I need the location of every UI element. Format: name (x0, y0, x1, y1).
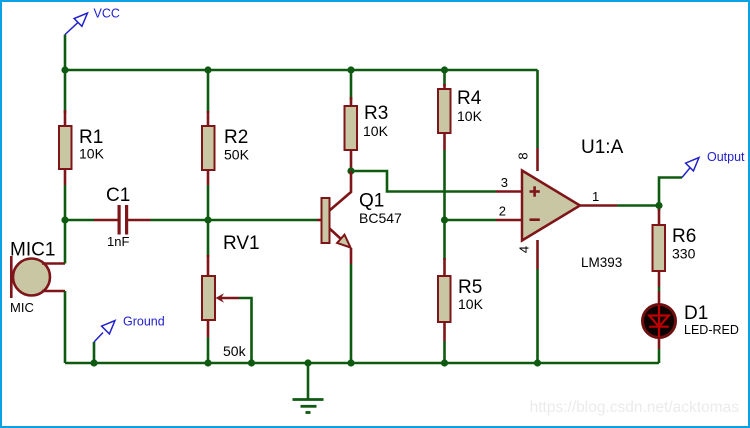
junction top rail at R2 (204, 66, 211, 73)
svg-text:https://blog.csdn.net/acktomas: https://blog.csdn.net/acktomas (530, 399, 740, 416)
capacitor C1 (94, 205, 151, 235)
svg-text:10K: 10K (363, 123, 389, 139)
svg-text:3: 3 (501, 175, 508, 190)
wire pin 1 to output node (617, 204, 659, 207)
pin 3 stub (496, 190, 522, 193)
wire R1 bottom (64, 185, 67, 220)
svg-text:MIC1: MIC1 (10, 240, 55, 261)
svg-text:1nF: 1nF (107, 234, 129, 249)
junction wiper bottom (248, 359, 255, 366)
svg-text:RV1: RV1 (223, 233, 260, 254)
svg-text:R4: R4 (457, 88, 482, 109)
pin 4 stub (536, 240, 539, 269)
wire MIC1 bottom (64, 291, 67, 363)
svg-text:C1: C1 (106, 185, 130, 206)
svg-text:10K: 10K (79, 146, 105, 162)
svg-text:Output: Output (707, 150, 745, 164)
op-amp U1 (522, 171, 580, 241)
svg-text:LM393: LM393 (581, 255, 622, 270)
LED D1 (643, 291, 676, 349)
wire R4 top (443, 70, 446, 86)
svg-text:Ground: Ground (123, 315, 165, 329)
junction ground symbol node (304, 359, 311, 366)
svg-text:D1: D1 (684, 303, 708, 324)
wire collector to pin 3 (351, 171, 496, 192)
wire R2 top (207, 70, 210, 113)
junction emitter bottom (347, 359, 354, 366)
svg-text:2: 2 (499, 204, 506, 219)
wire Q1 emitter to ground rail (350, 264, 353, 363)
wire MIC1 top (64, 220, 67, 264)
wire divider to pin 2 (445, 219, 497, 222)
transistor Q1 (317, 171, 351, 264)
resistor R4 (438, 84, 451, 150)
pin 8 stub (536, 148, 539, 171)
svg-text:R6: R6 (672, 226, 696, 247)
resistor R6 (653, 209, 666, 287)
svg-text:R3: R3 (364, 103, 388, 124)
svg-text:R2: R2 (224, 127, 248, 148)
ground symbol (293, 363, 324, 413)
junction divider node (441, 216, 448, 223)
svg-text:4: 4 (517, 246, 532, 253)
junction collector node (347, 167, 354, 174)
microphone MIC1 (11, 256, 65, 298)
svg-text:50k: 50k (223, 343, 247, 359)
svg-text:MIC: MIC (10, 300, 34, 315)
wire top rail (65, 69, 538, 72)
svg-text:BC547: BC547 (359, 210, 402, 226)
wire R5 top (443, 220, 446, 260)
svg-text:10K: 10K (457, 108, 483, 124)
svg-text:1: 1 (592, 189, 599, 204)
resistor R3 (345, 97, 358, 171)
wire R4 bottom (443, 150, 446, 220)
wire R2 bottom (207, 185, 210, 220)
junction output node (655, 202, 662, 209)
resistor R2 (202, 111, 215, 185)
terminal Ground arrow (94, 321, 115, 364)
potentiometer RV1 (202, 255, 239, 337)
power terminal VCC arrow (65, 13, 88, 35)
svg-text:330: 330 (672, 246, 696, 262)
junction mid rail at R1/C1 (61, 216, 68, 223)
svg-text:LED-RED: LED-RED (684, 323, 739, 337)
resistor R5 (438, 258, 451, 341)
wire R1 top (64, 70, 67, 113)
wire R3 top (350, 70, 353, 100)
junction RV1 bottom (204, 359, 211, 366)
wire pin 8 to top rail (536, 70, 539, 148)
wire R5 bottom (443, 341, 446, 363)
svg-text:U1:A: U1:A (581, 137, 624, 158)
wire R6 to D1 (658, 287, 661, 291)
wire RV1 wiper (239, 298, 252, 363)
junction top rail at R1 (61, 66, 68, 73)
junction mid rail at RV1 (204, 216, 211, 223)
terminal Output arrow (682, 158, 699, 178)
junction top rail at R4 (441, 66, 448, 73)
wire R6 top (658, 206, 661, 212)
svg-text:50K: 50K (224, 147, 250, 163)
wire C1 left (65, 219, 94, 222)
svg-text:8: 8 (516, 152, 531, 159)
svg-text:10K: 10K (458, 296, 484, 312)
resistor R1 (59, 110, 72, 185)
wire output stub (659, 178, 682, 206)
svg-text:R5: R5 (458, 277, 482, 298)
junction top rail at R3 (347, 66, 354, 73)
svg-text:VCC: VCC (94, 7, 120, 21)
junction ground-arrow node (90, 359, 97, 366)
wire bottom ground rail (65, 362, 659, 365)
wire pin 4 to ground rail (536, 269, 539, 363)
wire RV1 bottom (207, 337, 210, 363)
wire RV1 top (207, 220, 210, 257)
wire VCC stub (64, 35, 67, 71)
junction pin 4 bottom (534, 359, 541, 366)
junction R5 bottom (441, 359, 448, 366)
wire C1 to Q1 base (151, 219, 318, 222)
wire D1 to ground rail (658, 349, 661, 363)
pin 1 stub (580, 204, 617, 207)
pin 2 stub (496, 219, 522, 222)
svg-text:Q1: Q1 (359, 191, 384, 212)
